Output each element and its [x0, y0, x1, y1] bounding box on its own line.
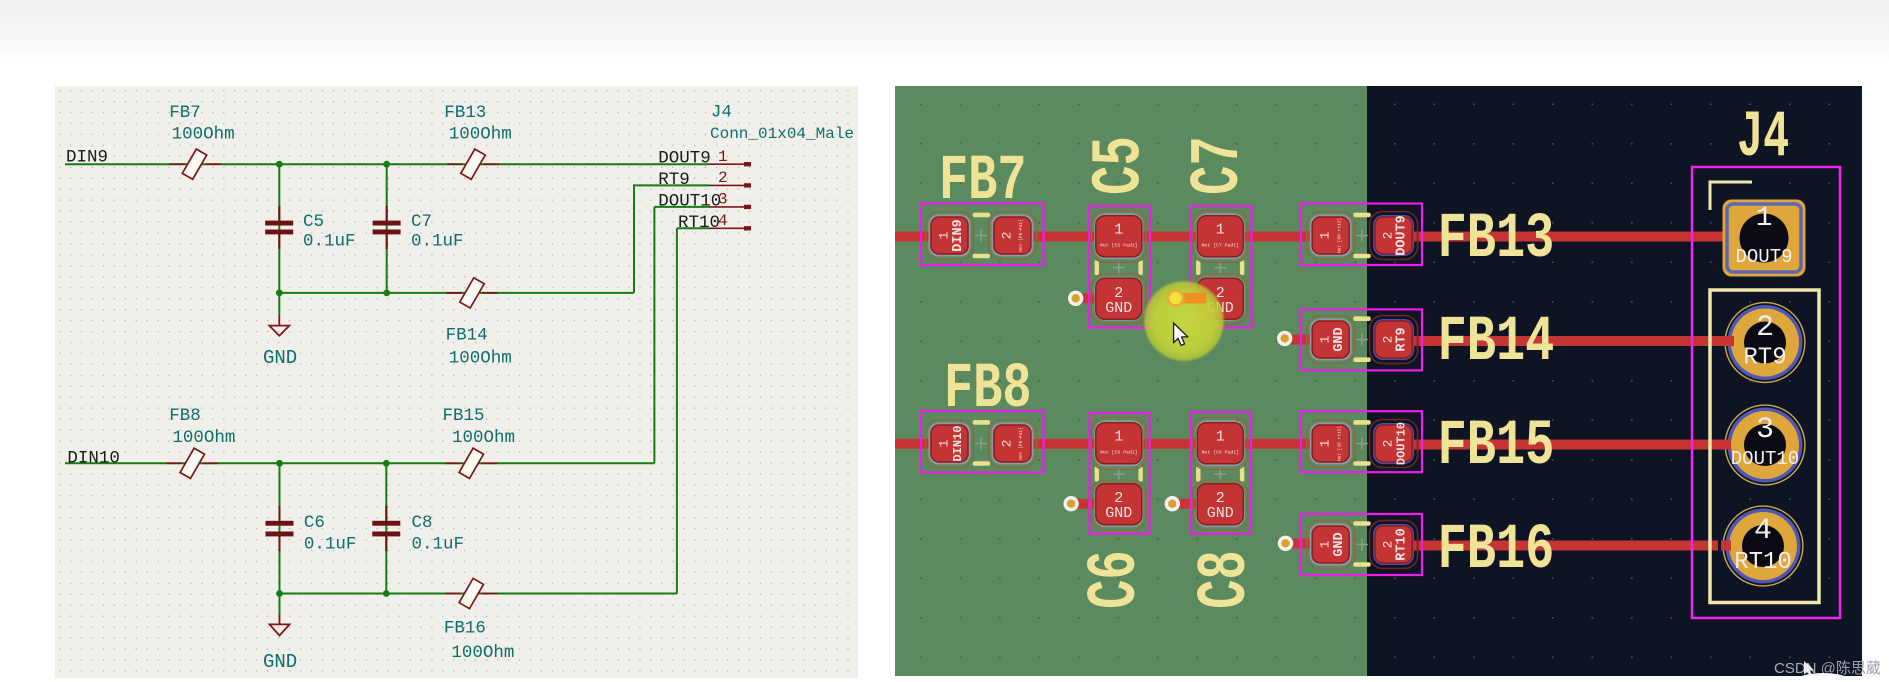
ferrite bead FB15 — [445, 448, 497, 478]
silk pin1 corner mark — [1710, 182, 1752, 210]
trace row4 via to FB16.1 — [1286, 539, 1332, 549]
svg-text:100Ohm: 100Ohm — [452, 428, 515, 448]
svg-text:100Ohm: 100Ohm — [172, 125, 235, 145]
trace row3 FB15.2 to J4.3 — [1393, 440, 1730, 450]
capacitor C5 — [265, 206, 293, 249]
svg-text:1: 1 — [1318, 439, 1333, 447]
trace row4 FB16.2 to J4.4 — [1393, 541, 1718, 551]
via near C8.2 — [1165, 496, 1180, 511]
top gradient bar — [0, 0, 1889, 86]
ground symbol GND1 — [269, 314, 289, 335]
pin 1 J4 — [709, 162, 751, 166]
svg-text:RT10: RT10 — [678, 213, 720, 233]
svg-text:4: 4 — [718, 212, 728, 230]
pad FB15.1 — [1307, 420, 1355, 468]
silk bars C5 — [1095, 260, 1099, 275]
anchor cross FB7 — [975, 230, 987, 242]
svg-text:Net [C6 Pad1]: Net [C6 Pad1] — [1100, 450, 1137, 456]
trace via to C5.2 — [1076, 293, 1119, 303]
svg-text:Net [10 rt15]: Net [10 rt15] — [1337, 426, 1343, 461]
svg-text:100Ohm: 100Ohm — [449, 348, 512, 368]
footprint FB14 — [1301, 309, 1422, 370]
wire bottom row2 — [280, 593, 677, 595]
svg-text:GND: GND — [1332, 532, 1347, 556]
courtyard FB14 — [1301, 309, 1422, 370]
svg-text:1: 1 — [1318, 540, 1333, 548]
ferrite bead FB13 — [447, 149, 499, 179]
wire DOUT10 vertical riser — [653, 207, 655, 463]
svg-text:3: 3 — [1756, 413, 1774, 447]
anchor cross C8 — [1214, 468, 1226, 480]
pad J4.2 — [1725, 303, 1805, 383]
svg-text:FB16: FB16 — [444, 618, 486, 638]
svg-text:FB16: FB16 — [1438, 515, 1555, 587]
ferrite bead FB7 — [170, 149, 222, 179]
wire DIN9 main horizontal — [65, 163, 709, 165]
pad FB13.1 — [1307, 212, 1355, 260]
silk bars FB7 — [973, 213, 990, 218]
silk bars FB16 — [1353, 521, 1370, 526]
svg-text:DOUT9: DOUT9 — [1735, 246, 1792, 268]
wire gnd2 stub — [279, 594, 281, 616]
svg-text:C6: C6 — [304, 513, 325, 533]
mouse cursor — [1174, 323, 1188, 345]
pad C7.2 GND — [1193, 274, 1248, 324]
ferrite bead FB8 — [166, 448, 218, 478]
svg-text:2: 2 — [1381, 440, 1396, 448]
silk bars FB8 — [973, 420, 990, 425]
svg-text:GND: GND — [263, 347, 297, 369]
connector J4 — [1692, 167, 1840, 618]
svg-text:C8: C8 — [412, 513, 433, 533]
pad J4.4 — [1723, 506, 1803, 586]
svg-text:DOUT10: DOUT10 — [658, 191, 721, 211]
svg-text:0.1uF: 0.1uF — [304, 534, 357, 554]
svg-text:FB14: FB14 — [446, 325, 488, 345]
courtyard FB15 — [1301, 411, 1422, 472]
anchor cross FB15 — [1356, 438, 1368, 450]
pad C5.1 — [1091, 210, 1146, 262]
svg-text:FB8: FB8 — [169, 406, 201, 426]
courtyard FB7 — [921, 204, 1044, 266]
courtyard C6 — [1090, 413, 1150, 534]
svg-text:Net [C7 Pad1]: Net [C7 Pad1] — [1202, 243, 1239, 249]
pad FB8.2 — [988, 420, 1036, 468]
courtyard FB8 — [921, 411, 1044, 473]
via near C5.2 — [1068, 291, 1083, 306]
svg-text:J4: J4 — [711, 102, 732, 122]
footprint C8 — [1191, 412, 1251, 534]
junction C6 top — [276, 460, 283, 467]
svg-text:RT9: RT9 — [1743, 345, 1786, 372]
footprint FB7 — [921, 204, 1044, 266]
trace row1 FB7.2 to FB13.1 — [1012, 232, 1331, 242]
svg-text:100Ohm: 100Ohm — [451, 643, 514, 663]
wire C6 vertical — [279, 463, 281, 593]
footprint C7 — [1191, 206, 1252, 328]
svg-text:1: 1 — [1756, 203, 1773, 234]
pcb panel — [895, 86, 1862, 676]
pin 3 J4 — [709, 205, 751, 209]
svg-text:Net [C5 Pad1]: Net [C5 Pad1] — [1100, 243, 1137, 249]
junction C7 bottom — [383, 290, 390, 297]
svg-text:DIN10: DIN10 — [951, 425, 965, 461]
footprint C5 — [1089, 206, 1150, 328]
courtyard C8 — [1191, 412, 1251, 534]
svg-text:C5: C5 — [303, 212, 324, 232]
courtyard C5 — [1089, 206, 1150, 328]
highlighted trace via to C7.2 — [1178, 293, 1206, 304]
svg-text:FB7: FB7 — [169, 103, 201, 123]
pad FB14.2 RT9 — [1370, 316, 1418, 364]
svg-text:1: 1 — [718, 148, 728, 166]
trace stub into J4.2 — [1723, 336, 1734, 346]
svg-text:FB13: FB13 — [444, 103, 486, 123]
pad FB8.1 — [926, 420, 974, 468]
svg-text:4: 4 — [1754, 514, 1772, 548]
silk bars C6 — [1095, 466, 1099, 481]
svg-text:1: 1 — [1114, 222, 1123, 239]
footprint FB8 — [921, 411, 1044, 473]
svg-text:Net [D9 rt13]: Net [D9 rt13] — [1337, 218, 1343, 253]
via near FB14.1 — [1277, 331, 1292, 346]
pad FB7.2 — [988, 212, 1036, 260]
svg-text:C7: C7 — [411, 212, 432, 232]
svg-text:1: 1 — [1216, 429, 1225, 446]
red traces — [895, 237, 1733, 546]
trace row1 FB13.2 to J4.1 — [1393, 232, 1723, 242]
wire C7 vertical — [386, 164, 388, 293]
svg-text:RT9: RT9 — [658, 170, 690, 190]
svg-text:2: 2 — [1381, 232, 1396, 240]
highlighted net blob — [1143, 280, 1225, 362]
junction C8 top — [383, 460, 390, 467]
pad FB15.2 DOUT10 — [1370, 420, 1418, 468]
svg-text:100Ohm: 100Ohm — [172, 428, 235, 448]
silk bars FB15 — [1353, 420, 1370, 425]
pad FB16.2 RT10 — [1370, 521, 1418, 569]
svg-text:1: 1 — [1216, 222, 1225, 239]
wire DOUT10 horizontal to pin3 — [654, 206, 709, 208]
silk text FB7 — [939, 100, 1789, 609]
svg-text:FB7: FB7 — [939, 146, 1027, 218]
footprint FB16 — [1301, 514, 1422, 575]
pad J4.1 square — [1723, 200, 1806, 277]
pin 4 J4 — [709, 226, 751, 230]
svg-text:FB15: FB15 — [1438, 411, 1555, 483]
pad J4.3 — [1725, 405, 1805, 485]
svg-text:DOUT10: DOUT10 — [1395, 422, 1409, 465]
svg-text:DOUT9: DOUT9 — [658, 148, 711, 168]
svg-text:0.1uF: 0.1uF — [411, 231, 464, 251]
board zone green — [895, 86, 1367, 676]
courtyard FB13 — [1301, 204, 1422, 266]
wire RT9 up-over — [634, 185, 709, 293]
CSDN watermark — [1774, 657, 1881, 678]
anchor cross FB16 — [1356, 539, 1368, 551]
wire C5 vertical — [278, 164, 280, 293]
pad FB16.1 GND — [1307, 521, 1355, 569]
courtyard C7 — [1191, 206, 1252, 328]
silk bars FB14 — [1353, 316, 1370, 321]
svg-text:RT10: RT10 — [1734, 549, 1792, 576]
svg-text:DIN9: DIN9 — [951, 219, 966, 251]
svg-text:1: 1 — [937, 231, 952, 239]
svg-text:GND: GND — [1207, 505, 1234, 522]
capacitor C6 — [266, 506, 294, 551]
trace via to C8.2 — [1172, 499, 1220, 509]
footprint FB15 — [1301, 411, 1422, 472]
pad C6.2 GND — [1091, 480, 1146, 530]
footprint FB13 — [1301, 204, 1422, 266]
svg-text:GND: GND — [1332, 327, 1347, 351]
svg-text:C5: C5 — [1082, 136, 1161, 195]
via near FB16.1 — [1278, 536, 1293, 551]
svg-text:2: 2 — [1381, 336, 1396, 344]
svg-text:DIN9: DIN9 — [66, 148, 108, 168]
wire C8 vertical — [385, 463, 387, 593]
junction C6 bottom — [276, 590, 283, 597]
ferrite bead FB14 — [446, 278, 498, 308]
junction C5 bottom — [276, 290, 283, 297]
svg-text:0.1uF: 0.1uF — [303, 231, 356, 251]
ferrite bead FB16 — [445, 578, 497, 608]
pad C6.1 — [1091, 417, 1146, 469]
anchor cross C7 — [1214, 262, 1226, 274]
trace row3 left entry — [895, 439, 950, 449]
courtyard J4 — [1692, 167, 1840, 618]
svg-text:1: 1 — [937, 439, 952, 447]
pad FB7.1 — [926, 212, 974, 260]
watermark cursor icon — [1802, 661, 1820, 681]
trace row3 FB8.2 to FB15.1 — [1012, 439, 1331, 449]
svg-text:2: 2 — [718, 169, 728, 187]
svg-text:2: 2 — [1381, 541, 1396, 549]
trace row1 left entry — [895, 232, 950, 242]
svg-text:Net [C8 Pad1]: Net [C8 Pad1] — [1202, 450, 1239, 456]
wire DIN10 main horizontal — [65, 462, 654, 464]
trace via to C6.2 — [1071, 499, 1119, 509]
pin 2 J4 — [709, 183, 751, 187]
svg-text:2: 2 — [999, 440, 1014, 448]
svg-text:DOUT9: DOUT9 — [1395, 215, 1410, 256]
svg-text:FB15: FB15 — [443, 406, 485, 426]
watermark white bubble — [1788, 673, 1858, 682]
svg-text:DIN10: DIN10 — [67, 449, 120, 469]
svg-text:Net [FB-Pa1]: Net [FB-Pa1] — [1018, 427, 1024, 459]
footprint C6 — [1090, 413, 1150, 534]
svg-text:1: 1 — [1114, 429, 1123, 446]
svg-text:FB14: FB14 — [1438, 307, 1555, 379]
pad FB13.2 — [1370, 212, 1418, 260]
capacitor C7 — [373, 206, 401, 249]
svg-text:C8: C8 — [1187, 550, 1266, 609]
wire bottom row1 to FB14 — [279, 292, 634, 294]
courtyard FB16 — [1301, 514, 1422, 575]
svg-text:0.1uF: 0.1uF — [412, 534, 465, 554]
silk bars FB13 — [1353, 213, 1370, 218]
svg-text:RT10: RT10 — [1395, 528, 1410, 560]
pad C5.2 GND — [1091, 274, 1146, 324]
svg-text:C6: C6 — [1077, 550, 1156, 609]
junction C8 bottom — [383, 590, 390, 597]
schematic panel — [55, 86, 858, 678]
svg-text:Conn_01x04_Male: Conn_01x04_Male — [710, 125, 854, 143]
trace stub into J4.4 — [1721, 541, 1731, 551]
svg-text:Net-[FB-Pa1]: Net-[FB-Pa1] — [1018, 219, 1024, 251]
pad C8.1 — [1193, 417, 1248, 469]
svg-text:2: 2 — [999, 232, 1014, 240]
svg-text:1: 1 — [1318, 231, 1333, 239]
trace row2 FB14.2 to J4.2 — [1393, 336, 1733, 346]
svg-text:GND: GND — [1105, 300, 1132, 317]
anchor cross C5 — [1113, 262, 1125, 274]
silk bars C7 — [1196, 260, 1200, 275]
ground symbol GND2 — [270, 615, 290, 636]
svg-text:GND: GND — [263, 651, 297, 673]
wire RT10 horizontal to pin4 — [677, 227, 709, 229]
trace stub into J4.3 — [1723, 440, 1731, 450]
svg-text:1: 1 — [1318, 335, 1333, 343]
svg-text:FB13: FB13 — [1438, 204, 1555, 276]
silk bars C8 — [1196, 466, 1200, 481]
junction C5 top — [276, 161, 283, 168]
svg-text:C7: C7 — [1180, 136, 1259, 195]
pad C7.1 — [1193, 210, 1248, 262]
wire RT10 vertical riser — [676, 228, 678, 593]
pad C8.2 GND — [1193, 480, 1248, 530]
anchor cross FB13 — [1356, 230, 1368, 242]
svg-text:J4: J4 — [1737, 100, 1789, 176]
svg-text:3: 3 — [718, 191, 728, 209]
svg-text:FB8: FB8 — [944, 354, 1032, 426]
junction C7 top — [383, 161, 390, 168]
pad FB14.1 GND — [1307, 316, 1355, 364]
highlighted via C7.2 — [1167, 289, 1185, 307]
svg-text:2: 2 — [1756, 311, 1774, 345]
via near C6.2 — [1063, 496, 1078, 511]
dark board background — [1367, 86, 1862, 676]
svg-text:DOUT10: DOUT10 — [1731, 448, 1799, 470]
wire gnd1 stub — [278, 293, 280, 314]
anchor cross FB8 — [975, 438, 987, 450]
svg-text:RT9: RT9 — [1395, 327, 1410, 351]
capacitor C8 — [372, 506, 400, 551]
trace row2 via to FB14.1 — [1285, 335, 1331, 345]
anchor cross FB14 — [1356, 334, 1368, 346]
svg-text:GND: GND — [1105, 505, 1132, 522]
anchor cross C6 — [1113, 468, 1125, 480]
svg-text:100Ohm: 100Ohm — [449, 125, 512, 145]
silk body rect J4 — [1710, 290, 1819, 603]
